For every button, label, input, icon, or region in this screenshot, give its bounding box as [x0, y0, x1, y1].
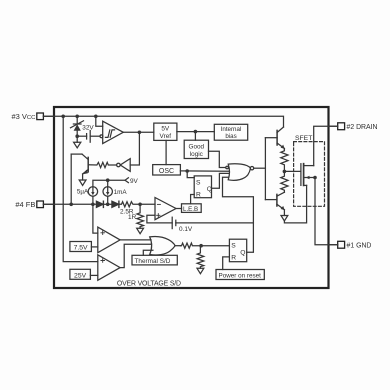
op-amp U1 hysteresis comparator: [100, 121, 123, 143]
battery to comparator minus: [77, 131, 100, 143]
resistor to ground POR: [197, 246, 204, 269]
node FB-Q1: [69, 203, 73, 207]
resistor 1R vertical: [137, 204, 144, 228]
node gate drive: [283, 170, 287, 174]
wire SFET body to GND pad: [315, 178, 338, 245]
svg-text:0.1V: 0.1V: [179, 226, 193, 233]
comparator U6 7.5V: [98, 227, 120, 253]
wire Good logic to gate input1: [209, 151, 226, 167]
box Internal bias: [214, 124, 247, 140]
svg-text:OVER VOLTAGE S/D: OVER VOLTAGE S/D: [117, 281, 181, 288]
wire OR out: [175, 245, 181, 247]
ground below Q1: [79, 180, 86, 185]
svg-text:7.5V: 7.5V: [74, 245, 88, 252]
svg-text:Q: Q: [240, 250, 245, 257]
svg-text:L.E.B: L.E.B: [183, 206, 198, 213]
ground below resistor: [197, 268, 204, 273]
wire POR to gate input4: [223, 177, 254, 252]
OR gate U8: [150, 237, 176, 255]
wire Vcc to comparator plus input: [96, 116, 103, 126]
svg-text:#4 FB: #4 FB: [15, 200, 35, 209]
box Power on reset: [216, 270, 264, 280]
op-amp U3 error comparator: [155, 198, 176, 220]
9V rail: [93, 178, 128, 187]
comparator U7 25V: [98, 255, 120, 280]
resistor 2.5R: [119, 202, 140, 207]
ground below Q3: [281, 216, 288, 221]
transistor Q2 NPN top: [265, 127, 284, 150]
wire op-amp minus loop to 0.1V battery: [147, 215, 172, 223]
wire Q1 emitter to FB line: [70, 154, 72, 204]
current source 5uA: [88, 187, 97, 205]
wire POR latch R: [223, 257, 230, 270]
wire Vcc down to 25V comparator: [63, 116, 98, 261]
node 9V-1mA: [106, 178, 110, 182]
node comp out: [138, 131, 142, 135]
current source 1mA: [103, 187, 112, 205]
wire SFET source to driver ground: [284, 185, 306, 223]
svg-text:Thermal S/D: Thermal S/D: [135, 258, 171, 265]
wire OSC to gate input2: [180, 170, 229, 172]
box L.E.B: [182, 204, 202, 213]
wire Thermal to OR: [143, 250, 153, 255]
box 7.5V: [70, 242, 92, 252]
svg-text:#2 DRAIN: #2 DRAIN: [347, 124, 378, 131]
wire Vcc rail: [43, 116, 283, 127]
node OSC-latch: [185, 169, 189, 173]
diode D1: [96, 201, 112, 207]
svg-text:bias: bias: [225, 133, 236, 140]
wire Vref to Internal bias: [177, 131, 214, 133]
wire comparator output to 5V Vref: [123, 131, 154, 133]
zener diode 32V: [71, 116, 84, 136]
box Good logic: [184, 140, 208, 158]
svg-text:SFET: SFET: [295, 135, 312, 142]
wire down to Good logic: [194, 132, 196, 141]
svg-text:#3 VCC: #3 VCC: [11, 112, 36, 121]
svg-text:1mA: 1mA: [114, 189, 128, 196]
wire gate out to driver: [254, 167, 266, 169]
node Vcc-comparator: [94, 115, 98, 119]
wire comp2 out to OR: [120, 244, 151, 267]
resistor OR out: [180, 243, 201, 248]
wire pad Vcc to box: [43, 115, 54, 117]
IC outline box: [54, 107, 329, 288]
ground below zener: [74, 136, 81, 148]
pin pad #2 DRAIN: [338, 123, 345, 130]
latch U4 S/R: [194, 176, 211, 198]
node Vref-goodlogic: [194, 130, 198, 134]
wire driver base rail: [264, 138, 266, 200]
inverter U2: [117, 159, 131, 172]
wire FB line: [43, 203, 96, 205]
wire gnd pad: [329, 244, 338, 246]
wire drain pad: [329, 125, 338, 127]
wire SFET drain to pad: [314, 126, 338, 165]
wire comp out down to inverter: [130, 132, 139, 165]
transistor Q1 PNP: [71, 154, 88, 180]
node SFET body: [313, 176, 317, 180]
wire node down to latch S: [187, 171, 194, 178]
wire node to op-amp: [140, 203, 155, 205]
resistor base PNP: [88, 162, 116, 167]
box 5V Vref: [154, 123, 177, 140]
svg-text:Power on reset: Power on reset: [219, 273, 262, 280]
SFET dashed box: [294, 142, 325, 207]
svg-text:5µA: 5µA: [77, 188, 89, 195]
svg-text:Q: Q: [207, 186, 212, 193]
wire 7.5V box to comp minus: [91, 246, 97, 248]
resistor R2 driver: [281, 171, 288, 192]
svg-text:Internal: Internal: [221, 126, 242, 133]
wire FB down to 7.5V comparator: [93, 204, 98, 233]
node Vcc-25V-comp: [61, 115, 65, 119]
box OSC: [153, 165, 181, 175]
node FB-1mA: [106, 203, 110, 207]
resistor R1 driver: [281, 150, 288, 172]
svg-text:1R: 1R: [128, 214, 137, 221]
node zener-battery: [75, 134, 79, 138]
svg-text:S: S: [231, 243, 236, 250]
wire node to SFET gate: [284, 170, 301, 172]
svg-text:25V: 25V: [74, 273, 87, 280]
wire pad FB to box: [43, 203, 54, 205]
pin pad #4 FB: [37, 201, 44, 208]
svg-text:OSC: OSC: [159, 168, 174, 175]
pin pad #3 Vcc: [37, 113, 44, 120]
battery 0.1V: [172, 217, 253, 228]
wire 25V box to comp minus: [90, 274, 97, 276]
ground below 1R: [137, 228, 144, 233]
node Vcc-zener: [75, 115, 79, 119]
diode D2: [112, 201, 119, 207]
svg-text:logic: logic: [190, 151, 204, 158]
svg-text:Good: Good: [188, 143, 204, 150]
latch U9 POR S/R: [229, 239, 246, 262]
MOSFET SFET: [301, 164, 315, 186]
node FB divider: [138, 203, 142, 207]
svg-text:9V: 9V: [130, 178, 139, 185]
svg-text:R: R: [196, 192, 201, 199]
svg-text:5V: 5V: [161, 126, 170, 133]
wire LEB to latch R: [191, 195, 195, 204]
svg-text:R: R: [231, 255, 236, 262]
wire Vref down to OSC: [165, 140, 167, 164]
wire op-amp out to LEB: [176, 208, 182, 210]
wire node to POR latch S: [201, 245, 229, 247]
pin pad #1 GND: [338, 241, 345, 248]
box 25V: [70, 269, 91, 279]
svg-text:S: S: [196, 179, 201, 186]
wire comp1 out to OR: [120, 239, 151, 241]
svg-text:Vref: Vref: [160, 133, 172, 140]
transistor Q3 NPN bottom: [265, 192, 284, 215]
box Thermal S/D: [132, 255, 177, 265]
wire latch Q to gate input3: [212, 173, 230, 188]
node POR S: [199, 244, 203, 248]
svg-text:32V: 32V: [82, 125, 94, 132]
gate U5 NOR: [226, 164, 254, 181]
node FB-5uA: [91, 203, 95, 207]
svg-text:#1 GND: #1 GND: [347, 243, 372, 250]
